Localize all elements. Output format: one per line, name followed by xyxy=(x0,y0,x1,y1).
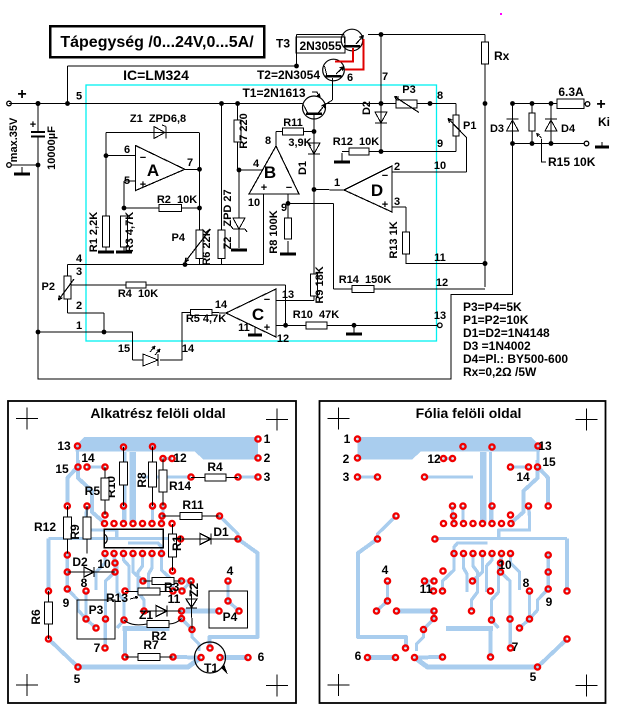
svg-text:−: − xyxy=(286,182,292,194)
svg-text:R4: R4 xyxy=(207,460,223,474)
svg-text:11: 11 xyxy=(168,592,181,606)
svg-text:7: 7 xyxy=(512,640,519,654)
svg-text:5: 5 xyxy=(76,91,82,103)
svg-text:P1=P2=10K: P1=P2=10K xyxy=(463,313,529,327)
svg-text:R7 220: R7 220 xyxy=(238,113,250,148)
svg-text:R14 150K: R14 150K xyxy=(339,274,392,286)
svg-text:10: 10 xyxy=(97,557,111,571)
svg-text:10: 10 xyxy=(434,160,446,172)
svg-text:8: 8 xyxy=(81,576,88,590)
svg-text:15: 15 xyxy=(542,455,556,469)
svg-text:Alkatrész felöli oldal: Alkatrész felöli oldal xyxy=(90,405,225,421)
svg-text:P4: P4 xyxy=(172,232,186,244)
svg-text:D4=Pl.: BY500-600: D4=Pl.: BY500-600 xyxy=(463,352,568,366)
svg-text:C: C xyxy=(252,305,264,324)
svg-text:14: 14 xyxy=(516,470,530,484)
svg-text:14: 14 xyxy=(215,299,228,311)
svg-text:R3 4,7K: R3 4,7K xyxy=(124,212,136,252)
svg-text:R15 10K: R15 10K xyxy=(548,155,596,169)
svg-text:13: 13 xyxy=(57,439,71,453)
svg-text:A: A xyxy=(147,161,159,180)
svg-text:R13 1K: R13 1K xyxy=(388,221,400,258)
svg-text:Tápegység /0...24V,0...5A/: Tápegység /0...24V,0...5A/ xyxy=(60,34,254,51)
svg-text:12: 12 xyxy=(277,333,289,345)
svg-text:9: 9 xyxy=(63,596,70,610)
svg-text:R12: R12 xyxy=(34,520,56,534)
svg-text:+: + xyxy=(596,96,605,113)
svg-text:Rx=0,2Ω /5W: Rx=0,2Ω /5W xyxy=(463,365,537,379)
svg-text:13: 13 xyxy=(538,439,552,453)
svg-text:D1=D2=1N4148: D1=D2=1N4148 xyxy=(463,326,550,340)
svg-text:R14: R14 xyxy=(169,479,191,493)
svg-text:Rx: Rx xyxy=(494,49,510,63)
svg-text:8: 8 xyxy=(437,90,443,102)
svg-text:+: + xyxy=(261,182,267,194)
svg-text:R4 10K: R4 10K xyxy=(118,288,158,300)
svg-text:R9 18K: R9 18K xyxy=(314,266,326,303)
svg-text:T1: T1 xyxy=(204,661,218,675)
svg-text:8: 8 xyxy=(265,135,271,147)
svg-text:D4: D4 xyxy=(561,123,576,135)
svg-text:9: 9 xyxy=(546,595,553,609)
svg-text:12: 12 xyxy=(427,452,441,466)
svg-text:+: + xyxy=(264,322,270,334)
svg-text:4: 4 xyxy=(382,563,389,577)
svg-text:R10 47K: R10 47K xyxy=(293,309,340,321)
svg-text:R8: R8 xyxy=(135,472,149,488)
svg-text:D3: D3 xyxy=(490,123,504,135)
svg-text:14: 14 xyxy=(182,343,195,355)
svg-text:+: + xyxy=(382,199,388,211)
svg-text:D: D xyxy=(371,181,383,200)
svg-text:Z1 ZPD6,8: Z1 ZPD6,8 xyxy=(130,113,186,125)
svg-text:P4: P4 xyxy=(223,610,238,624)
svg-text:12: 12 xyxy=(436,277,448,289)
svg-text:3: 3 xyxy=(264,470,271,484)
svg-text:R1 2,2K: R1 2,2K xyxy=(88,212,100,252)
svg-text:3: 3 xyxy=(76,266,82,278)
svg-text:Fólia felöli oldal: Fólia felöli oldal xyxy=(416,405,522,421)
svg-text:R2 10K: R2 10K xyxy=(157,194,197,206)
svg-text:5: 5 xyxy=(74,672,81,686)
svg-text:9: 9 xyxy=(437,138,443,150)
svg-text:−: − xyxy=(264,294,270,306)
svg-text:11: 11 xyxy=(420,582,433,596)
svg-text:R11: R11 xyxy=(283,117,303,129)
svg-text:2N3055: 2N3055 xyxy=(299,39,341,53)
svg-text:T3: T3 xyxy=(276,37,290,51)
svg-text:4: 4 xyxy=(253,158,260,170)
svg-text:R6: R6 xyxy=(29,609,43,625)
svg-text:Z2: Z2 xyxy=(222,237,234,250)
svg-text:8: 8 xyxy=(523,576,530,590)
svg-text:−: − xyxy=(382,170,388,182)
svg-text:R11: R11 xyxy=(182,498,204,512)
svg-text:R7: R7 xyxy=(143,638,159,652)
svg-text:6: 6 xyxy=(355,649,362,663)
svg-text:7: 7 xyxy=(382,71,388,83)
svg-text:2: 2 xyxy=(76,300,82,312)
svg-text:P3: P3 xyxy=(402,84,415,96)
svg-text:Z1: Z1 xyxy=(139,608,153,622)
svg-text:6: 6 xyxy=(258,650,265,664)
svg-text:3: 3 xyxy=(343,470,350,484)
svg-text:2: 2 xyxy=(264,451,271,465)
svg-text:10: 10 xyxy=(248,197,260,209)
svg-text:10000µF: 10000µF xyxy=(46,126,58,170)
svg-text:Z2: Z2 xyxy=(187,583,201,597)
svg-text:+: + xyxy=(30,119,36,131)
svg-text:R9: R9 xyxy=(68,524,82,540)
svg-text:T1=2N1613: T1=2N1613 xyxy=(242,86,305,100)
svg-text:4: 4 xyxy=(76,253,83,265)
svg-text:P1: P1 xyxy=(463,120,476,132)
svg-text:6: 6 xyxy=(347,72,353,84)
svg-text:1: 1 xyxy=(334,177,340,189)
svg-text:R1: R1 xyxy=(170,535,184,551)
svg-text:P3: P3 xyxy=(89,603,104,617)
svg-text:15: 15 xyxy=(118,343,130,355)
svg-text:+: + xyxy=(140,179,146,191)
svg-text:6: 6 xyxy=(124,144,130,156)
svg-text:2: 2 xyxy=(343,452,350,466)
svg-text:11: 11 xyxy=(238,322,250,334)
svg-text:Ki: Ki xyxy=(598,115,610,129)
svg-text:7: 7 xyxy=(94,641,101,655)
svg-text:P2: P2 xyxy=(42,281,55,293)
svg-text:R5: R5 xyxy=(85,484,101,498)
svg-text:ZPD 27: ZPD 27 xyxy=(222,189,234,226)
svg-text:+: + xyxy=(17,86,26,103)
svg-text:D2: D2 xyxy=(72,555,88,569)
svg-text:15: 15 xyxy=(55,462,69,476)
svg-text:D1: D1 xyxy=(297,161,309,175)
svg-text:1: 1 xyxy=(264,432,271,446)
svg-text:13: 13 xyxy=(282,289,294,301)
svg-text:10: 10 xyxy=(498,558,512,572)
svg-text:2: 2 xyxy=(394,161,400,173)
svg-text:D3 =1N4002: D3 =1N4002 xyxy=(463,339,531,353)
svg-text:13: 13 xyxy=(434,310,446,322)
svg-text:6.3A: 6.3A xyxy=(558,85,584,99)
svg-text:P3=P4=5K: P3=P4=5K xyxy=(463,300,522,314)
svg-text:14: 14 xyxy=(81,451,95,465)
svg-text:IC=LM324: IC=LM324 xyxy=(123,67,189,83)
svg-text:1: 1 xyxy=(344,432,351,446)
svg-text:T2=2N3054: T2=2N3054 xyxy=(257,68,320,82)
svg-text:D2: D2 xyxy=(361,101,373,115)
svg-text:R8 100K: R8 100K xyxy=(268,210,280,253)
svg-text:1: 1 xyxy=(76,320,82,332)
svg-text:R13: R13 xyxy=(106,591,128,605)
svg-text:4: 4 xyxy=(227,564,234,578)
svg-text:11: 11 xyxy=(434,252,446,264)
svg-text:R5 4,7K: R5 4,7K xyxy=(186,313,226,325)
svg-text:−: − xyxy=(140,152,146,164)
svg-text:max.35V: max.35V xyxy=(8,117,20,162)
svg-text:12: 12 xyxy=(173,451,187,465)
svg-text:R12 10K: R12 10K xyxy=(333,136,380,148)
svg-text:5: 5 xyxy=(530,670,537,684)
svg-text:3: 3 xyxy=(394,196,400,208)
svg-text:D1: D1 xyxy=(213,525,229,539)
svg-text:B: B xyxy=(264,163,276,182)
svg-text:7: 7 xyxy=(187,157,193,169)
